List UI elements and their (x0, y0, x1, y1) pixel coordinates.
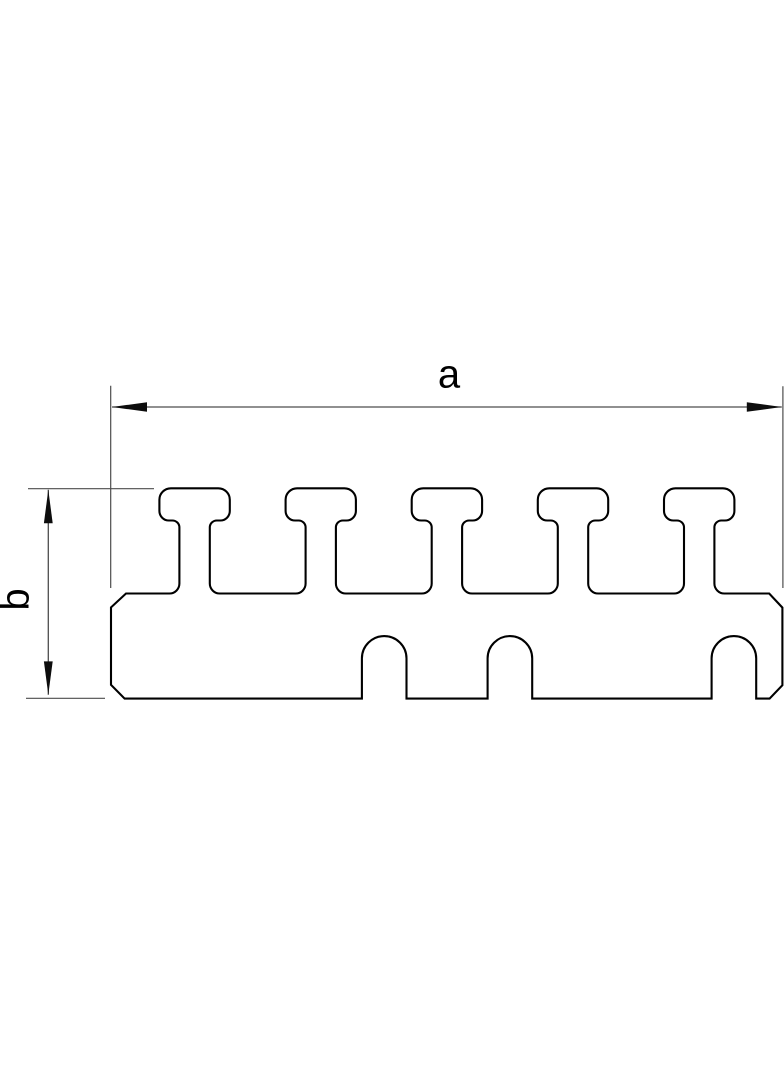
dimension b arrow bottom (44, 661, 53, 694)
dimension b extension line bottom (26, 697, 105, 699)
dimension a arrow left (112, 402, 147, 412)
svg-text:b: b (0, 588, 38, 610)
dimension a line (112, 406, 782, 408)
extruded profile outline (111, 488, 782, 698)
dimension a arrow right (747, 402, 782, 412)
dimension a extension line right (782, 386, 784, 588)
dimension a extension line left (110, 386, 112, 588)
dimension b extension line top (28, 488, 154, 490)
dimension b arrow top (44, 490, 53, 523)
dimension b line (47, 490, 49, 695)
svg-text:a: a (438, 353, 461, 397)
